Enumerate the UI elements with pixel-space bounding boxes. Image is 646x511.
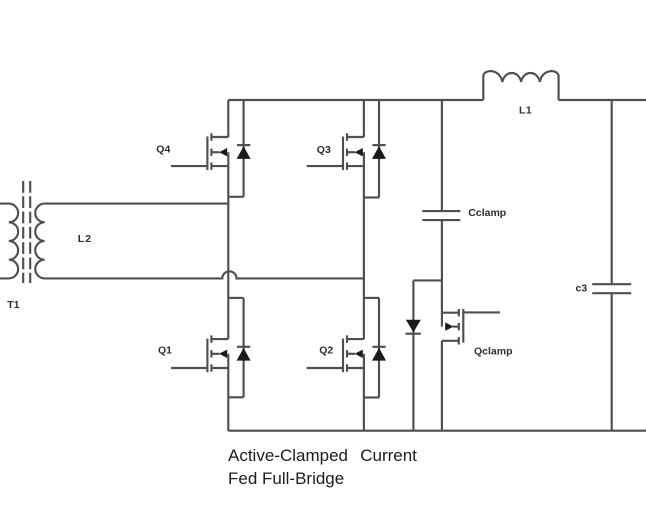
wire: L2 top to left bridge leg (node A) (45, 203, 229, 205)
transistor Q4 (171, 100, 228, 197)
svg-text:Qclamp: Qclamp (474, 346, 513, 358)
svg-text:Q4: Q4 (156, 144, 170, 156)
wire: top rail right section (559, 99, 646, 101)
wire: clamp branch from top rail to Cclamp (441, 100, 443, 211)
svg-text:Q1: Q1 (158, 344, 172, 356)
wire: C3 branch from top rail (611, 100, 613, 284)
wire: C3 to bottom rail (611, 293, 613, 431)
svg-text:L1: L1 (519, 105, 532, 117)
wire: branch to clamp diode (413, 279, 442, 281)
wire: Cclamp to Qclamp drain (441, 220, 443, 327)
transistor Q2 (307, 335, 364, 430)
inductor L1 (483, 71, 558, 100)
transistor Q1 (171, 335, 228, 430)
svg-text:Cclamp: Cclamp (468, 207, 506, 219)
transistor Q3 (307, 100, 364, 198)
transformer T1 primary winding (0, 204, 18, 279)
svg-text:T1: T1 (7, 299, 19, 311)
body diode of Q3 (364, 100, 386, 198)
svg-text:Fed Full-Bridge: Fed Full-Bridge (228, 469, 344, 488)
transistor Qclamp (442, 309, 500, 431)
capacitor C3 (592, 284, 631, 293)
capacitor Cclamp (422, 211, 460, 220)
diode D1 (clamp diode) (406, 280, 421, 430)
body diode of Q4 (228, 100, 250, 197)
svg-text:L2: L2 (78, 233, 92, 245)
svg-text:Q3: Q3 (317, 144, 331, 156)
svg-text:Q2: Q2 (319, 344, 333, 356)
body diode of Q1 (228, 298, 250, 397)
wire: top rail left section (228, 99, 483, 101)
transformer T1 secondary winding L2 (35, 204, 44, 279)
wire: left leg from Q4 source to Q1 drain (227, 197, 229, 339)
wire: right leg from Q3 source to Q2 drain (363, 198, 365, 340)
svg-text:Active-Clamped Current: Active-Clamped Current (228, 446, 417, 465)
transformer T1 core (23, 181, 30, 283)
wire: bottom rail (228, 430, 646, 432)
svg-text:c3: c3 (576, 282, 588, 294)
wire: L2 bottom to right bridge leg with hop over left leg (node B) (45, 271, 364, 278)
body diode of Q2 (364, 298, 386, 398)
